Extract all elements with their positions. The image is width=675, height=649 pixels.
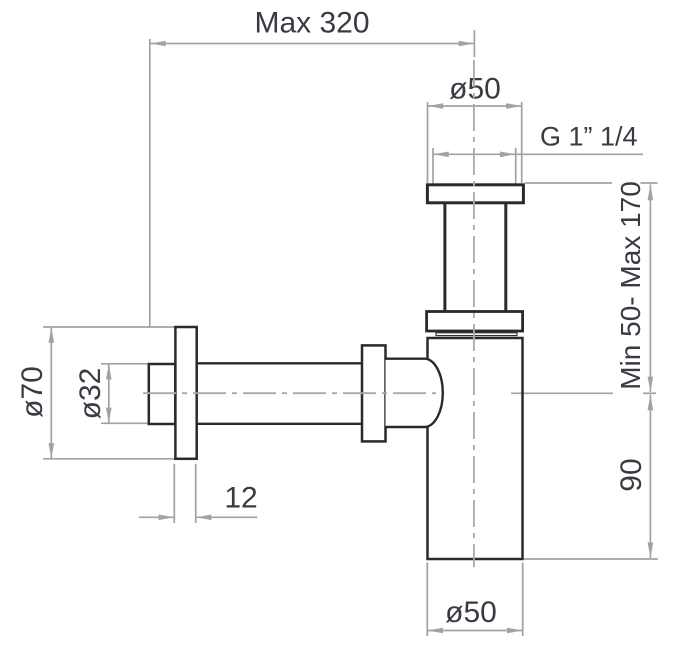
wall flange (175, 327, 196, 459)
svg-text:Min 50- Max 170: Min 50- Max 170 (615, 181, 646, 390)
svg-text:12: 12 (224, 482, 257, 515)
dimension top ø50 (428, 102, 522, 183)
dimension Max 320 (150, 30, 475, 327)
dimension G 1" 1/4 (433, 148, 643, 184)
centerline vertical (body axis) (473, 60, 475, 567)
dimension 90 (524, 395, 658, 559)
outlet nut (left cap of inlet pipe) (149, 364, 176, 424)
svg-text:ø32: ø32 (74, 368, 107, 420)
trap body (428, 338, 523, 559)
dimension Min 50- Max 170 (511, 183, 658, 393)
dimension 12 (139, 464, 257, 523)
svg-text:ø70: ø70 (16, 366, 49, 418)
top flange (427, 185, 523, 203)
compression nut (top of body) (427, 312, 523, 332)
svg-text:ø50: ø50 (449, 73, 501, 106)
riser tube (445, 203, 506, 312)
slip nut (362, 345, 386, 441)
centerline horizontal (inlet pipe axis) (143, 392, 436, 394)
inlet pipe (197, 363, 362, 424)
elbow into body (386, 359, 443, 427)
dimension ø70 (43, 327, 175, 459)
svg-text:90: 90 (615, 458, 648, 491)
svg-text:Max 320: Max 320 (254, 7, 369, 40)
dimension bottom ø50 (427, 563, 522, 637)
svg-text:ø50: ø50 (445, 596, 497, 629)
washer under nut (436, 333, 517, 336)
dimension ø32 (101, 364, 149, 424)
svg-text:G 1” 1/4: G 1” 1/4 (540, 122, 638, 152)
